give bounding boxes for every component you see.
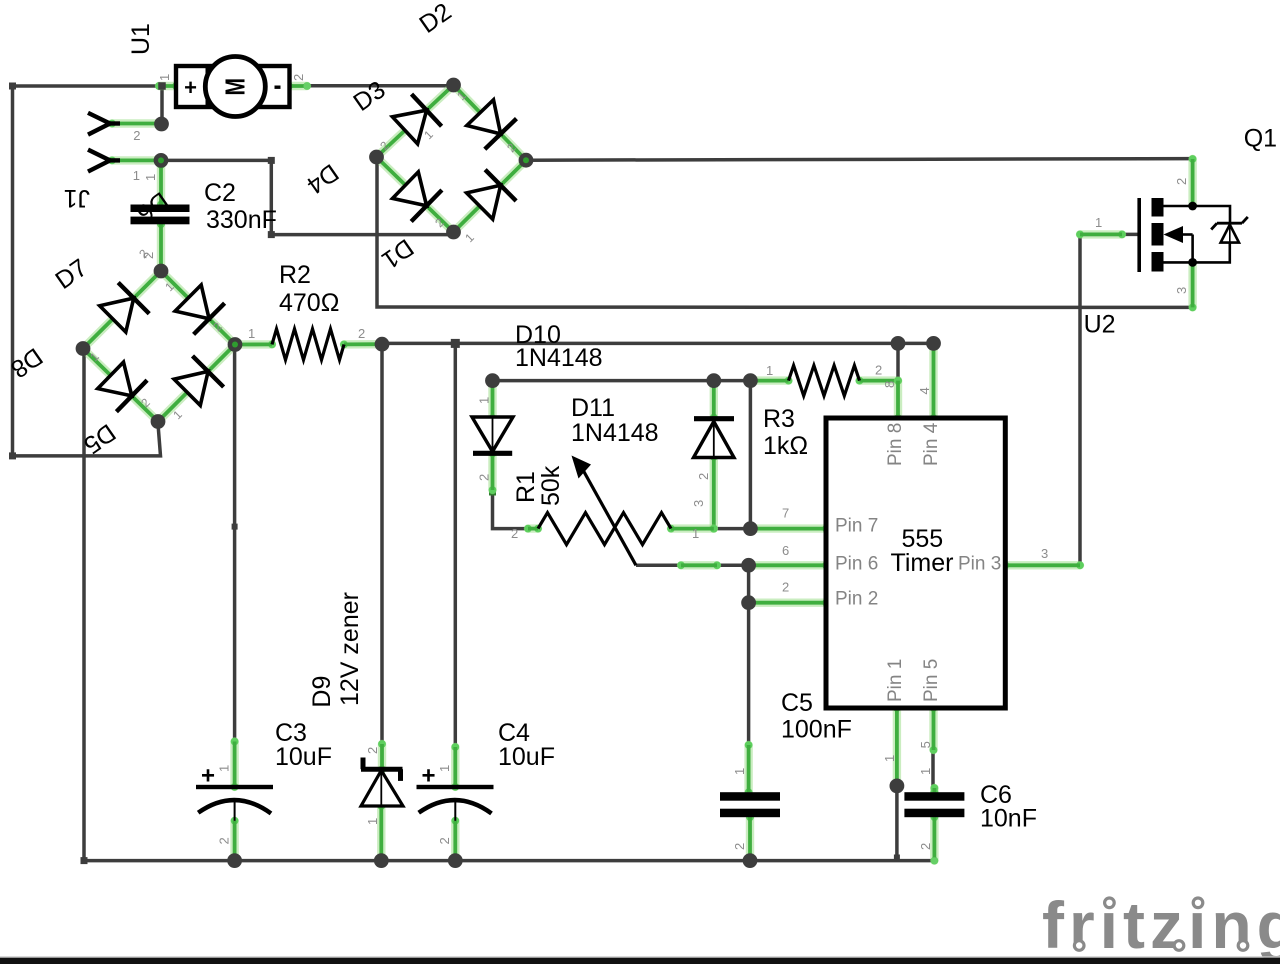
label 555 bbox=[902, 525, 944, 553]
pin label J1 2 bbox=[133, 128, 140, 143]
pin label Q1 2 bbox=[1174, 178, 1189, 185]
pin label bridgeL 2c bbox=[138, 395, 153, 410]
pin label 555 2 bbox=[782, 580, 789, 595]
svg-text:1: 1 bbox=[732, 768, 747, 775]
wire green 555 pin8 bbox=[894, 377, 902, 422]
wire green C2 pin1 bbox=[157, 161, 165, 208]
svg-text:12V zener: 12V zener bbox=[336, 592, 364, 706]
pin label D10 1 bbox=[477, 397, 492, 404]
label D5 bbox=[78, 418, 120, 459]
label Timer bbox=[891, 549, 954, 577]
wire pin3 up to Q1 gate bbox=[1080, 234, 1120, 565]
svg-text:R3: R3 bbox=[763, 405, 795, 433]
junction C4 ground node bbox=[448, 853, 463, 868]
pin label D9 1 bbox=[365, 818, 380, 825]
diode D6 bbox=[175, 285, 225, 334]
wire D10 row from D10 to D11 to R3 junction bbox=[493, 379, 751, 383]
diode D7 bbox=[100, 283, 150, 332]
resistor R3 bbox=[789, 365, 860, 395]
svg-text:Q1: Q1 bbox=[1244, 125, 1277, 153]
wire green D11 bottom to R1 right end bbox=[667, 453, 718, 532]
svg-text:1: 1 bbox=[1095, 215, 1102, 230]
pin label bridgeT 2a bbox=[504, 140, 519, 155]
wire green D10 pin2 bbox=[489, 450, 497, 494]
wire green D10 pin1 bbox=[489, 377, 497, 422]
junction left bridge right node bbox=[228, 337, 243, 352]
pin label J1 1 bbox=[133, 168, 140, 183]
pin label R1 2 bbox=[511, 526, 518, 541]
pin label bridgeT 1c bbox=[462, 230, 477, 245]
wire top bridge right node to Q1 drain bbox=[526, 159, 1193, 161]
wire green R2 pin2 stub bbox=[340, 340, 386, 348]
label D10 bbox=[515, 321, 561, 349]
svg-text:1: 1 bbox=[365, 818, 380, 825]
transistor Q1 gate bar bbox=[1137, 198, 1141, 272]
wire R1 wiper tail to pin6 junction bbox=[636, 564, 749, 568]
wire J1 pin1 junction right then down to top bridge bottom node bbox=[167, 157, 454, 238]
junction pin6 node bbox=[741, 558, 756, 573]
junction D9 ground node bbox=[374, 853, 389, 868]
wire green pin6 stub bbox=[745, 561, 830, 569]
svg-text:6: 6 bbox=[782, 543, 789, 558]
label J1 bbox=[64, 184, 90, 212]
pin label C4 1 bbox=[437, 765, 452, 772]
wire green C3 pin2 to rail bbox=[231, 817, 239, 865]
junction D11 top node bbox=[706, 373, 721, 388]
svg-text:3: 3 bbox=[1041, 546, 1048, 561]
pin label D9 2 bbox=[365, 747, 380, 754]
pin label 555 8 bbox=[882, 381, 897, 388]
label D9 bbox=[308, 676, 336, 708]
junction left bridge left node bbox=[76, 341, 91, 356]
svg-text:C5: C5 bbox=[781, 689, 813, 717]
svg-text:Pin 4: Pin 4 bbox=[921, 422, 942, 466]
label C3 value bbox=[275, 743, 332, 771]
pin label C4 2 bbox=[437, 837, 452, 844]
svg-text:2: 2 bbox=[217, 837, 232, 844]
junction top bridge left node bbox=[369, 150, 384, 165]
wire green R2 pin1 stub bbox=[231, 341, 276, 349]
pin label bridgeL 1c bbox=[170, 407, 185, 422]
capacitor C2 bbox=[131, 205, 190, 225]
wire green C4 pin2 to rail bbox=[451, 817, 459, 865]
label C5 value bbox=[781, 716, 852, 744]
svg-text:2: 2 bbox=[732, 843, 747, 850]
pin label bridgeL 2b bbox=[210, 319, 225, 334]
svg-text:R2: R2 bbox=[279, 261, 311, 289]
pin label 555 7 bbox=[782, 506, 789, 521]
wire green J1 pin2 to junction bbox=[108, 120, 165, 128]
label Pin 8 bbox=[885, 423, 906, 466]
junction rail right green tip bbox=[931, 857, 938, 864]
svg-text:1: 1 bbox=[248, 326, 255, 341]
pin label D11 2 bbox=[696, 473, 711, 480]
svg-text:1: 1 bbox=[157, 74, 172, 81]
label R3 value bbox=[763, 432, 808, 460]
connector J1 pin1 arrow bbox=[88, 150, 120, 172]
label Pin 3 bbox=[958, 554, 1001, 575]
label D9 value bbox=[336, 592, 364, 706]
svg-text:M: M bbox=[220, 78, 251, 96]
label R2 bbox=[279, 261, 311, 289]
pin label 555 4 bbox=[917, 387, 932, 394]
wire R1 right lead to pin7 junction bbox=[714, 527, 751, 531]
pin label C3 2 bbox=[217, 837, 232, 844]
svg-text:10nF: 10nF bbox=[980, 805, 1037, 833]
junction R2 right node bbox=[375, 337, 390, 352]
pin label R2 2 bbox=[358, 326, 365, 341]
pin label C6 1 bbox=[918, 768, 933, 775]
label Pin 6 bbox=[835, 554, 878, 575]
wire green D11 pin top bbox=[710, 377, 718, 422]
svg-text:7: 7 bbox=[782, 506, 789, 521]
junction left bridge top node bbox=[154, 264, 169, 279]
svg-text:Pin 7: Pin 7 bbox=[835, 516, 878, 537]
wire green pin3 stub bbox=[1001, 231, 1126, 570]
svg-text:2: 2 bbox=[1174, 178, 1189, 185]
pin label R3 2 bbox=[875, 363, 882, 378]
svg-text:Pin 6: Pin 6 bbox=[835, 554, 878, 575]
wire green top bridge edge top-right bbox=[450, 81, 530, 164]
svg-text:1N4148: 1N4148 bbox=[515, 344, 603, 372]
label R3 bbox=[763, 405, 795, 433]
svg-text:Timer: Timer bbox=[891, 549, 954, 577]
svg-text:1: 1 bbox=[882, 755, 897, 762]
pin label Q1 1 bbox=[1095, 215, 1102, 230]
label D1 bbox=[376, 233, 418, 274]
pin label bridgeT 1a bbox=[454, 88, 469, 103]
diode D5 bbox=[174, 356, 224, 406]
wire green 555 pin5 to C6 bbox=[930, 704, 939, 796]
pin label C3 1 bbox=[217, 765, 232, 772]
pin label R1 1 bbox=[692, 526, 699, 541]
wire C6 pin jog bbox=[931, 750, 935, 788]
svg-text:D9: D9 bbox=[308, 676, 336, 708]
capacitor C4 bbox=[417, 763, 494, 821]
label Pin 7 bbox=[835, 516, 878, 537]
connector J1 pin2 arrow bbox=[88, 113, 120, 135]
wire pin6 to pin2 junction vertical bbox=[747, 565, 751, 602]
wire D10 bottom to R1 left end bbox=[489, 489, 529, 529]
wire green C5 pin1 bbox=[745, 741, 753, 796]
label U2 bbox=[1084, 311, 1116, 339]
svg-text:1: 1 bbox=[477, 397, 492, 404]
wire green R3 pin1 stub bbox=[747, 377, 793, 385]
wire green left bridge edge bottom-right bbox=[154, 341, 239, 426]
wire 555 pin8 upper dark segment bbox=[896, 343, 900, 380]
label D11 value bbox=[571, 419, 659, 447]
svg-text:Pin 2: Pin 2 bbox=[835, 589, 878, 610]
junction C3 ground node bbox=[227, 853, 242, 868]
transistor Q1 body arrow bbox=[1164, 226, 1193, 262]
diode D4 bbox=[393, 172, 442, 222]
svg-text:1kΩ: 1kΩ bbox=[763, 432, 808, 460]
label U1 bbox=[127, 23, 155, 55]
wire bottom ground rail bbox=[81, 857, 935, 864]
svg-text:2: 2 bbox=[437, 837, 452, 844]
junction motor pin1 / J1 pin2 node bbox=[154, 82, 169, 131]
svg-text:2: 2 bbox=[133, 128, 140, 143]
junction 555 pin1 bend node bbox=[890, 779, 905, 794]
wire motor pin2 to top bridge top node bbox=[306, 84, 454, 88]
pin label C5 1 bbox=[732, 768, 747, 775]
wire green C2 pin2 to left bridge top node bbox=[157, 220, 165, 274]
label C4 value bbox=[498, 743, 555, 771]
wire green 555 pin1 bbox=[893, 704, 901, 790]
label R2 value bbox=[279, 289, 339, 317]
pin label bridgeL 2a bbox=[136, 246, 151, 261]
wire green motor pin2 stub bbox=[285, 82, 311, 90]
motor U1 bbox=[176, 57, 290, 117]
wire green C5 pin2 to rail bbox=[746, 813, 754, 864]
junction left bridge bottom node bbox=[151, 414, 166, 429]
svg-text:2: 2 bbox=[782, 580, 789, 595]
svg-text:+: + bbox=[184, 75, 197, 100]
transistor Q1 body diode bbox=[1193, 206, 1248, 262]
fritzing logo bbox=[1042, 888, 1280, 962]
label D4 bbox=[301, 158, 343, 199]
zener diode D9 bbox=[361, 758, 403, 807]
capacitor C5 bbox=[720, 792, 780, 817]
svg-text:2: 2 bbox=[918, 843, 933, 850]
svg-text:1: 1 bbox=[766, 363, 773, 378]
pin label C6 2 bbox=[918, 843, 933, 850]
svg-text:U2: U2 bbox=[1084, 311, 1116, 339]
label C2 value bbox=[206, 206, 277, 234]
pin label motor 1 bbox=[157, 74, 172, 81]
svg-text:2: 2 bbox=[358, 326, 365, 341]
wire green top bridge edge top-left bbox=[373, 81, 458, 161]
pin label bridgeT 2c bbox=[432, 215, 447, 230]
wire pin2 junction down to C5 bbox=[747, 603, 751, 745]
label C3 bbox=[275, 719, 307, 747]
wire left bridge left node down to ground rail bbox=[82, 349, 86, 861]
svg-text:1: 1 bbox=[143, 174, 158, 181]
svg-text:+: + bbox=[421, 763, 435, 790]
wire green C6 pin2 to rail bbox=[931, 813, 939, 864]
wire green D9 pin2 bbox=[378, 740, 386, 773]
svg-text:D11: D11 bbox=[571, 394, 615, 422]
svg-text:C2: C2 bbox=[204, 179, 236, 207]
svg-text:10uF: 10uF bbox=[275, 743, 332, 771]
wire motor pin1 down to J1 junction bbox=[160, 86, 164, 124]
svg-text:10uF: 10uF bbox=[498, 743, 555, 771]
diode D2 bbox=[467, 100, 517, 149]
pin label 555 5 bbox=[918, 741, 933, 748]
label Pin 2 bbox=[835, 589, 878, 610]
wire green C4 pin1 bbox=[451, 743, 459, 791]
svg-text:J1: J1 bbox=[64, 184, 90, 212]
wire R3 junction down to pin7 row bbox=[749, 381, 753, 529]
junction top bridge bottom node bbox=[446, 225, 461, 240]
svg-text:470Ω: 470Ω bbox=[279, 289, 339, 317]
wire left loop from motor pin1 down left side to left bridge bottom node bbox=[9, 83, 162, 460]
wire green R1 pin2 stub bbox=[524, 525, 542, 533]
svg-text:2: 2 bbox=[291, 74, 306, 81]
svg-text:U1: U1 bbox=[127, 23, 155, 55]
pin label R2 1 bbox=[248, 326, 255, 341]
label Pin 5 bbox=[921, 659, 942, 702]
svg-text:330nF: 330nF bbox=[206, 206, 277, 234]
svg-text:100nF: 100nF bbox=[781, 716, 852, 744]
svg-text:1: 1 bbox=[437, 765, 452, 772]
junction pin4 node bbox=[926, 336, 941, 351]
svg-text:1: 1 bbox=[692, 526, 699, 541]
label D6 bbox=[131, 186, 173, 227]
label D3 bbox=[348, 76, 390, 117]
wire green left bridge edge top-right bbox=[157, 267, 239, 348]
pin label 555 6 bbox=[782, 543, 789, 558]
svg-text:50k: 50k bbox=[537, 465, 565, 506]
wire green left bridge edge bottom-left bbox=[79, 345, 162, 426]
svg-text:3: 3 bbox=[1174, 287, 1189, 294]
wire green top bridge edge bottom-left bbox=[373, 153, 458, 236]
label C6 value bbox=[980, 805, 1037, 833]
pin label 555 3 bbox=[1041, 546, 1048, 561]
pin label bridgeL 1b bbox=[87, 349, 102, 364]
junction C5 ground node bbox=[743, 853, 758, 868]
label C6 bbox=[980, 781, 1012, 809]
label R1 bbox=[512, 471, 540, 503]
svg-text:2: 2 bbox=[365, 747, 380, 754]
diode D10 bbox=[472, 417, 513, 453]
junction R3 left node bbox=[743, 373, 758, 388]
svg-text:1: 1 bbox=[918, 768, 933, 775]
junction pin7 node bbox=[743, 521, 758, 536]
wire green 555 pin4 bbox=[930, 340, 938, 422]
wire green Q1 pin2 drain bbox=[1189, 155, 1197, 210]
pin label bridgeT 1b bbox=[421, 127, 436, 142]
capacitor C6 bbox=[904, 792, 964, 817]
label D8 bbox=[5, 342, 47, 383]
junction J1 pin1 node bbox=[154, 153, 169, 168]
wire green pin7 stub bbox=[747, 525, 830, 533]
wire green motor pin1 stub bbox=[155, 82, 180, 90]
pin label motor 2 bbox=[291, 74, 306, 81]
label C4 bbox=[498, 719, 530, 747]
svg-text:5: 5 bbox=[918, 741, 933, 748]
svg-text:1N4148: 1N4148 bbox=[571, 419, 659, 447]
diode D1 bbox=[467, 170, 517, 220]
wire green J1 pin1 to junction bbox=[108, 157, 165, 165]
svg-text:+: + bbox=[201, 763, 215, 790]
transistor Q1 channel segments bbox=[1152, 198, 1164, 272]
pin label bridgeL 1a bbox=[162, 279, 177, 294]
label D10 value bbox=[515, 344, 603, 372]
wire green pin2 stub bbox=[745, 599, 830, 607]
wire green D9 pin1 to rail bbox=[377, 802, 385, 864]
wire green Q1 pin3 source bbox=[1189, 259, 1197, 312]
pin label C2 1 bbox=[143, 174, 158, 181]
wire R2 junction down to D9 bbox=[380, 343, 384, 745]
label C2 bbox=[204, 179, 236, 207]
pin label D11 3 bbox=[691, 500, 706, 507]
svg-text:2: 2 bbox=[875, 363, 882, 378]
resistor R2 bbox=[272, 329, 344, 360]
diode D11 bbox=[694, 419, 735, 458]
junction pin2 node bbox=[741, 595, 756, 610]
pin label C2 2 bbox=[141, 252, 156, 259]
wire green R3 pin2 to pin8 wire bbox=[856, 377, 902, 385]
pin label Q1 3 bbox=[1174, 287, 1189, 294]
pin label bridgeT 2b bbox=[377, 138, 392, 153]
svg-text:Pin 8: Pin 8 bbox=[885, 423, 906, 466]
svg-text:4: 4 bbox=[917, 387, 932, 394]
junction pin8 node bbox=[891, 336, 906, 351]
wire green top bridge edge bottom-right bbox=[450, 156, 530, 236]
diode D8 bbox=[98, 362, 147, 412]
svg-text:Pin 3: Pin 3 bbox=[958, 554, 1001, 575]
capacitor C3 bbox=[196, 763, 273, 821]
label R1 value bbox=[537, 465, 565, 506]
transistor Q1 drain wire bbox=[1164, 202, 1198, 211]
svg-text:3: 3 bbox=[691, 500, 706, 507]
junction D10 top node bbox=[485, 373, 500, 388]
potentiometer R1 wiper arrow bbox=[572, 456, 637, 566]
junction top bridge top node bbox=[446, 78, 461, 93]
wire 555 pin1 bend down to ground rail bbox=[894, 786, 900, 861]
svg-text:R1: R1 bbox=[512, 471, 540, 503]
diode D3 bbox=[392, 94, 441, 144]
svg-text:2: 2 bbox=[696, 473, 711, 480]
label D2 bbox=[414, 0, 456, 39]
svg-text:1: 1 bbox=[217, 765, 232, 772]
label C5 bbox=[781, 689, 813, 717]
pin label 555 1 bbox=[882, 755, 897, 762]
junction top bridge right node bbox=[519, 153, 534, 168]
wire green R1 wiper stub bbox=[677, 561, 721, 569]
svg-text:2: 2 bbox=[477, 474, 492, 481]
pin label C5 2 bbox=[732, 843, 747, 850]
label D11 bbox=[571, 394, 615, 422]
label Q1 bbox=[1244, 125, 1277, 153]
wire top bridge left node down and right to Q1 source bbox=[377, 157, 1193, 307]
wire Q1 gate segment bbox=[1119, 233, 1138, 237]
wire green left bridge edge top-left bbox=[79, 267, 165, 352]
label Pin 4 bbox=[921, 422, 942, 466]
svg-text:Pin 5: Pin 5 bbox=[921, 659, 942, 702]
pin label D10 2 bbox=[477, 474, 492, 481]
label Pin 1 bbox=[885, 659, 906, 702]
svg-text:2: 2 bbox=[511, 526, 518, 541]
wire branch junction down to C4 bbox=[451, 339, 460, 747]
wire green C3 pin1 bbox=[231, 738, 239, 791]
wire left bridge right node down to C3 bbox=[232, 345, 238, 742]
label D7 bbox=[50, 254, 92, 295]
pin label R3 1 bbox=[766, 363, 773, 378]
svg-text:Pin 1: Pin 1 bbox=[885, 659, 906, 702]
transistor Q1 source wire bbox=[1164, 258, 1198, 267]
svg-text:8: 8 bbox=[882, 381, 897, 388]
svg-text:1: 1 bbox=[133, 168, 140, 183]
bottom bar bbox=[0, 956, 1280, 964]
resistor R1 potentiometer bbox=[538, 513, 671, 545]
wire R2 junction to pin8/pin4 junctions bbox=[382, 342, 934, 346]
op-amp U2 555 timer box bbox=[826, 418, 1005, 708]
